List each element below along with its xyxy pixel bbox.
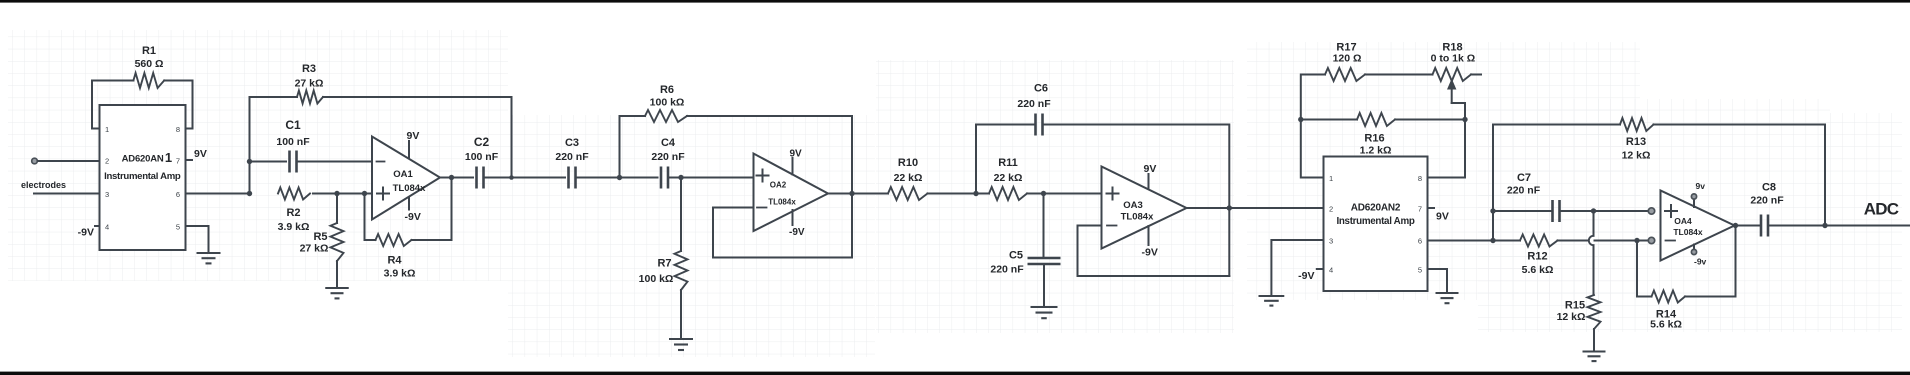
wire R10 to R11 (928, 193, 990, 195)
svg-text:4: 4 (105, 223, 109, 232)
svg-text:C4: C4 (661, 137, 676, 149)
ground C5 (1031, 306, 1058, 308)
svg-text:22 kΩ: 22 kΩ (894, 172, 923, 184)
svg-text:C7: C7 (1517, 172, 1531, 184)
node J1 input (247, 191, 252, 196)
svg-text:220 nF: 220 nF (1750, 195, 1784, 207)
wire R7 upper lead (680, 178, 682, 252)
svg-text:100 nF: 100 nF (465, 151, 499, 163)
capacitor C7 (1551, 200, 1554, 222)
svg-text:220 nF: 220 nF (651, 151, 685, 163)
wire R11 to OA3 plus (1027, 193, 1102, 195)
svg-text:12 kΩ: 12 kΩ (1622, 150, 1651, 162)
node R13 return (1822, 223, 1827, 228)
svg-text:2: 2 (105, 157, 109, 166)
wire R13 to output node (1654, 125, 1826, 226)
svg-text:Instrumental Amp: Instrumental Amp (104, 171, 181, 182)
svg-text:C1: C1 (285, 118, 301, 132)
wire R3 top run (250, 97, 512, 178)
OA2 minus sign (757, 207, 767, 209)
wire J1 riser (249, 97, 251, 194)
wire C2 to C3 (484, 177, 566, 179)
resistor R1 (133, 73, 164, 88)
svg-text:R12: R12 (1527, 251, 1547, 263)
svg-text:7: 7 (176, 157, 180, 166)
resistor R17 (1325, 68, 1365, 81)
resistor R15 (1588, 295, 1601, 329)
svg-text:6: 6 (176, 190, 180, 199)
wire electrode to U1 pin2 (38, 160, 100, 162)
wire C7 to OA4 plus (1560, 210, 1649, 212)
node OA3 output (1227, 205, 1232, 210)
supply -9V OA1 (408, 198, 410, 210)
wire C5 upper lead (1043, 194, 1045, 259)
supply 9v OA4 (1693, 199, 1695, 207)
resistor R14 (1652, 291, 1686, 303)
svg-text:1.2 kΩ: 1.2 kΩ (1360, 145, 1392, 157)
svg-text:R7: R7 (657, 258, 671, 270)
svg-text:1: 1 (1329, 174, 1333, 183)
wire R5 upper lead (336, 194, 338, 224)
wire U2 pin3 to ground (1271, 240, 1323, 295)
resistor R4 (376, 234, 412, 246)
op-amp OA1 body (372, 137, 440, 220)
wire OA2 output (828, 193, 888, 195)
node R6 tap (617, 175, 622, 180)
ground U2 pin5 (1436, 292, 1459, 294)
wire C7 left (1493, 210, 1553, 212)
svg-text:27 kΩ: 27 kΩ (300, 243, 329, 255)
R18 wiper arrow (1451, 86, 1453, 103)
svg-text:Instrumental Amp: Instrumental Amp (1336, 216, 1414, 227)
svg-text:1: 1 (105, 125, 109, 134)
svg-text:9v: 9v (1696, 181, 1706, 191)
svg-text:AD620AN: AD620AN (122, 154, 164, 165)
svg-text:TL084x: TL084x (1673, 227, 1703, 237)
svg-text:220 nF: 220 nF (990, 264, 1024, 276)
svg-text:9V: 9V (1144, 163, 1157, 175)
capacitor C4 (660, 167, 663, 189)
resistor R18 potentiometer (1433, 68, 1472, 81)
wire OA3 output (1187, 207, 1324, 209)
svg-text:2: 2 (1329, 205, 1333, 214)
svg-text:22 kΩ: 22 kΩ (994, 172, 1023, 184)
svg-text:8: 8 (176, 125, 180, 134)
svg-text:100 kΩ: 100 kΩ (639, 273, 674, 285)
resistor R6 (645, 110, 687, 122)
svg-text:27 kΩ: 27 kΩ (295, 78, 324, 90)
supply -9v OA4 (1693, 245, 1695, 250)
resistor R12 (1520, 235, 1558, 247)
wire R17 to R18 (1365, 74, 1433, 76)
svg-text:TL084x: TL084x (393, 183, 426, 194)
wire R18 right lead (1471, 74, 1481, 76)
svg-text:C8: C8 (1762, 182, 1776, 194)
svg-text:12 kΩ: 12 kΩ (1557, 311, 1586, 323)
svg-text:220 nF: 220 nF (1507, 185, 1541, 197)
supply 9V OA1 (408, 141, 410, 158)
wire OA3 feedback box (1078, 226, 1230, 277)
svg-text:1: 1 (165, 150, 172, 165)
resistor R2 (278, 188, 310, 200)
svg-text:220 nF: 220 nF (555, 151, 589, 163)
wire U1 pin6 output (186, 193, 250, 195)
svg-text:9V: 9V (407, 130, 420, 142)
resistor R16 (1357, 113, 1395, 126)
wire OA1 output (440, 177, 473, 179)
wire OA2 feedback box (713, 208, 852, 258)
svg-text:R15: R15 (1565, 300, 1585, 312)
svg-text:5: 5 (176, 223, 180, 232)
resistor R13 (1620, 118, 1654, 131)
resistor R7 (675, 251, 688, 290)
wire R15 lower lead (1593, 329, 1595, 351)
wire C6 riser and run (976, 125, 1229, 277)
node C5 tap (1041, 191, 1046, 196)
svg-text:R11: R11 (998, 157, 1018, 169)
supply -9V OA2 (792, 210, 794, 225)
svg-text:9V: 9V (1436, 211, 1449, 223)
svg-text:3: 3 (105, 190, 109, 199)
svg-text:C3: C3 (565, 137, 579, 149)
ground R7 (669, 338, 693, 340)
node C7 tap (1490, 208, 1495, 213)
svg-text:R2: R2 (286, 207, 300, 219)
OA1 plus sign (377, 188, 389, 200)
wire OA4 output (1735, 225, 1762, 227)
wire R6 riser (620, 116, 646, 178)
wire R16 run (1301, 119, 1465, 121)
OA4 minus sign (1666, 240, 1676, 242)
svg-text:5: 5 (1418, 266, 1422, 275)
OA4 plus sign (1665, 205, 1677, 217)
node R16 right tap (1462, 117, 1467, 122)
svg-text:5.6 kΩ: 5.6 kΩ (1522, 264, 1554, 276)
node R3 return (509, 175, 514, 180)
svg-text:R3: R3 (302, 63, 316, 75)
svg-text:OA2: OA2 (770, 181, 787, 190)
ground R15 (1583, 350, 1606, 352)
node R5 tap (334, 191, 339, 196)
svg-text:3.9 kΩ: 3.9 kΩ (384, 268, 416, 280)
capacitor C2 (475, 167, 478, 189)
supply -9V U2 pin4 (1317, 268, 1324, 270)
svg-text:9V: 9V (194, 148, 207, 160)
wire C3 to C4 (576, 177, 658, 179)
svg-text:R4: R4 (387, 255, 402, 267)
svg-text:100 kΩ: 100 kΩ (650, 97, 685, 109)
OA3 minus sign (1107, 225, 1117, 227)
terminal OA4 minus input (1648, 237, 1654, 243)
wire node A riser (1493, 125, 1620, 241)
ground R5 (325, 287, 349, 289)
svg-text:C6: C6 (1034, 83, 1048, 95)
capacitor C3 (567, 167, 570, 189)
wire C1 to OA1 minus (297, 161, 373, 163)
svg-text:100 nF: 100 nF (276, 136, 310, 148)
capacitor C5 (1028, 257, 1061, 259)
svg-text:TL084x: TL084x (1121, 212, 1154, 223)
svg-text:R5: R5 (313, 231, 327, 243)
svg-text:OA1: OA1 (393, 169, 413, 180)
svg-text:3.9 kΩ: 3.9 kΩ (278, 221, 310, 233)
op-amp U2 AD620AN2 body (1324, 157, 1428, 292)
node A output of U2 (1490, 238, 1495, 243)
wire R12 to OA4 minus (1558, 240, 1649, 242)
svg-text:-9V: -9V (405, 211, 421, 223)
node OA1 plus feedback tap (362, 191, 367, 196)
op-amp OA2 body (754, 154, 829, 232)
svg-text:R13: R13 (1626, 136, 1646, 148)
wire C1 left (250, 161, 287, 163)
wire OA4 feedback loop (1637, 226, 1736, 297)
wire U2 pin6 output (1428, 240, 1521, 242)
svg-text:-9V: -9V (78, 227, 94, 239)
svg-text:TL084x: TL084x (768, 198, 796, 207)
svg-text:560 Ω: 560 Ω (135, 58, 164, 70)
svg-text:120 Ω: 120 Ω (1333, 53, 1362, 65)
wire U1 pin5 to ground (186, 226, 209, 252)
svg-text:ADC: ADC (1864, 200, 1899, 219)
node R16 left tap (1298, 117, 1303, 122)
wire C8 to ADC (1768, 225, 1910, 227)
wire U2 pin5 to ground (1428, 269, 1448, 292)
op-amp OA4 body (1661, 191, 1735, 261)
wire R5 lower lead (336, 261, 338, 287)
wire R6 to OA2 output node (687, 116, 852, 258)
wire R2 to plus (313, 193, 372, 195)
svg-text:C5: C5 (1009, 250, 1023, 262)
supply -9V U1 pin4 (95, 225, 100, 227)
resistor R5 (331, 223, 344, 261)
op-amp U1 AD620AN1 body (100, 105, 186, 250)
node OA4 output (1733, 223, 1738, 228)
svg-text:-9V: -9V (789, 227, 805, 238)
svg-text:3: 3 (1329, 237, 1333, 246)
OA3 plus sign (1107, 188, 1119, 200)
svg-text:-9V: -9V (1142, 247, 1158, 259)
svg-text:220 nF: 220 nF (1017, 98, 1051, 110)
resistor R10 (888, 187, 928, 200)
wire U2 pin8 (1428, 120, 1466, 178)
capacitor C6 (1034, 114, 1037, 136)
svg-text:R6: R6 (660, 84, 674, 96)
wire U2 pin1 riser (1301, 75, 1325, 178)
wire R1 gain loop (92, 81, 193, 129)
capacitor C1 (288, 151, 291, 173)
svg-text:OA4: OA4 (1674, 216, 1692, 226)
node R14 tap (1634, 238, 1639, 243)
capacitor C8 (1760, 215, 1763, 237)
supply 9V U2 pin7 (1428, 207, 1435, 209)
OA1 minus sign (377, 161, 385, 163)
svg-text:C2: C2 (474, 135, 490, 149)
ground U1 pin5 (197, 252, 221, 254)
supply 9V U1 pin7 (186, 159, 193, 161)
node OA2 output (849, 191, 854, 196)
terminal OA4 plus input (1648, 208, 1654, 214)
wire R18 wiper to R16 (1452, 103, 1465, 120)
supply 9V OA3 (1148, 174, 1150, 189)
resistor R11 (989, 187, 1027, 200)
wire electrode to U1 pin3 (34, 193, 100, 195)
resistor R3 (297, 91, 323, 104)
node R7 tap (678, 175, 683, 180)
node OA1 output (449, 175, 454, 180)
svg-text:9V: 9V (790, 149, 803, 160)
op-amp OA3 body (1102, 167, 1187, 249)
svg-text:-9v: -9v (1694, 257, 1707, 267)
svg-text:4: 4 (1329, 266, 1333, 275)
svg-text:0 to 1k Ω: 0 to 1k Ω (1431, 53, 1476, 65)
input terminal electrode (32, 158, 38, 164)
node C6 tap (973, 191, 978, 196)
svg-text:7: 7 (1418, 205, 1422, 214)
ground U2 pin3 (1259, 295, 1285, 297)
wire R15 with hop over wire (1593, 211, 1595, 295)
node R15 tap (1591, 208, 1596, 213)
svg-text:OA3: OA3 (1123, 200, 1143, 211)
wire C4 to OA2 plus (668, 177, 754, 179)
supply 9V OA2 (792, 158, 794, 175)
supply -9V OA3 (1148, 226, 1150, 245)
svg-text:R16: R16 (1364, 133, 1384, 145)
node J1 C1 tap (247, 159, 252, 164)
wire C5 lower lead (1043, 264, 1045, 306)
svg-text:8: 8 (1418, 174, 1422, 183)
svg-text:6: 6 (1418, 237, 1422, 246)
svg-text:-9V: -9V (1298, 270, 1314, 282)
wire R7 lower lead (680, 290, 682, 338)
wire OA1 feedback loop (365, 178, 452, 241)
svg-text:R10: R10 (898, 157, 918, 169)
OA2 plus sign (757, 170, 769, 182)
svg-text:R1: R1 (142, 45, 156, 57)
svg-text:electrodes: electrodes (21, 180, 66, 190)
svg-text:AD620AN2: AD620AN2 (1351, 203, 1401, 214)
svg-text:5.6 kΩ: 5.6 kΩ (1650, 319, 1682, 331)
